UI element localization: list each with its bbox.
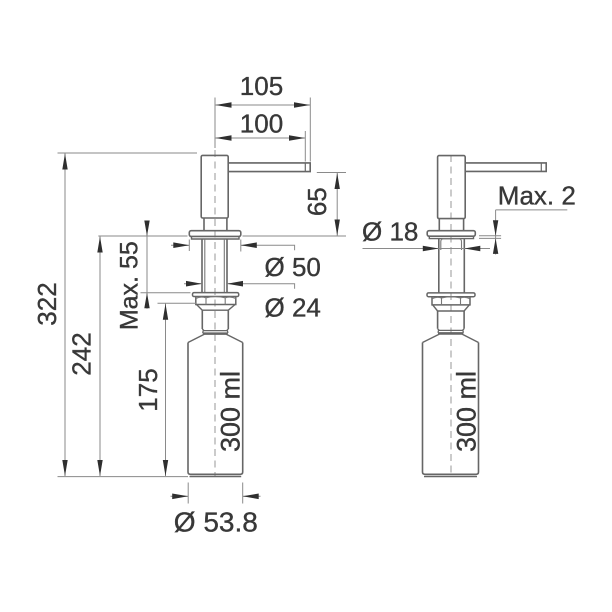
cap body left [202, 310, 228, 329]
dim 242 lines [98, 236, 187, 476]
spout right [465, 163, 546, 172]
spout left [228, 163, 310, 172]
locknut flange right [427, 293, 475, 297]
collar flange right [427, 231, 475, 237]
dim D24 lines [184, 284, 295, 289]
shaft thread lines left [205, 239, 225, 293]
dim D24 arrows [186, 281, 243, 287]
dim Max55 arrows [144, 221, 149, 309]
collar rim right [429, 236, 473, 238]
dim 175 lines [158, 303, 197, 476]
svg-text:105: 105 [240, 71, 283, 101]
pump head right [438, 156, 466, 219]
svg-text:100: 100 [240, 109, 283, 139]
dim D50 arrows [173, 242, 256, 248]
svg-text:Ø 18: Ø 18 [362, 217, 418, 247]
cap body right [438, 311, 465, 329]
dim 105 arrows [216, 102, 311, 108]
svg-text:Ø 24: Ø 24 [265, 293, 321, 323]
dim 322 lines [58, 153, 198, 477]
dim 175 arrows [163, 304, 168, 476]
inner tube right [441, 239, 462, 250]
dim D53.8 arrows [172, 494, 259, 500]
bottle bottom rim right [424, 476, 477, 478]
shoulder cone left [188, 334, 243, 342]
dim 100 arrows [216, 135, 306, 141]
dim D18 lines [363, 248, 491, 250]
svg-text:65: 65 [302, 187, 332, 216]
centerline left figure [214, 150, 216, 477]
hex nut facets left [196, 297, 236, 305]
shaft left [202, 239, 227, 293]
dim Max55 lines [141, 221, 191, 309]
spout tip divider left [304, 163, 306, 172]
locknut flange left [193, 293, 239, 297]
bottle left [188, 343, 243, 475]
dim Max2 lines [479, 210, 567, 255]
cap taper left [197, 305, 236, 311]
dim 100 line [216, 131, 306, 162]
neck bead left [202, 329, 228, 333]
hex nut right [432, 297, 470, 305]
neck bead right [438, 329, 465, 333]
pump head base left [204, 218, 227, 231]
hex nut facets right [432, 297, 470, 305]
dim 65 lines [243, 173, 347, 237]
pump head base right [439, 219, 463, 231]
centerline right figure [450, 155, 452, 477]
spout tip divider right [540, 163, 542, 172]
shoulder cone right [423, 334, 479, 343]
svg-text:Ø 50: Ø 50 [265, 252, 321, 282]
dim D53.8 lines [171, 483, 261, 504]
bottle bottom rim left [190, 476, 242, 478]
svg-text:Max. 55: Max. 55 [116, 241, 144, 330]
hex nut left [196, 297, 236, 305]
svg-text:Max. 2: Max. 2 [498, 180, 576, 210]
dim D18 arrows [423, 246, 481, 252]
svg-text:300 ml: 300 ml [452, 371, 482, 452]
bottle right [423, 343, 479, 475]
svg-text:242: 242 [67, 332, 97, 375]
dim D50 lines [171, 240, 295, 252]
collar rim left [192, 236, 240, 239]
pump head left [201, 155, 228, 218]
dim 242 arrows [97, 237, 102, 477]
dim 322 arrows [62, 154, 67, 477]
svg-text:Ø 53.8: Ø 53.8 [174, 507, 258, 538]
dim Max2 arrows [493, 220, 498, 254]
svg-text:322: 322 [32, 282, 62, 325]
cap taper right [433, 305, 470, 311]
collar flange left [189, 231, 241, 237]
svg-text:175: 175 [133, 368, 163, 411]
shaft right [439, 239, 465, 293]
dim 105 line [215, 98, 310, 162]
svg-text:300 ml: 300 ml [216, 371, 246, 452]
dim 65 arrows [335, 173, 340, 236]
